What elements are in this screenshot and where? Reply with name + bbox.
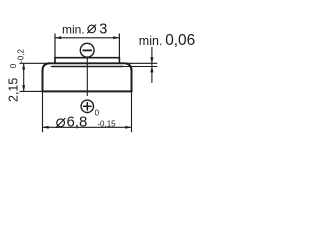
bottom dimension diameter symbol	[57, 119, 65, 127]
bottom extension line of height dimension	[20, 90, 43, 92]
bottom dimension right arrowhead	[125, 126, 131, 129]
right dimension up arrowhead	[150, 66, 153, 72]
height dimension rotated label 2,15 with tolerance 0/-0,2	[7, 48, 26, 102]
shoulder line A (top of can rim, extends both sides as extension line)	[20, 62, 158, 64]
center axis line	[86, 58, 88, 96]
plus terminal symbol circle	[81, 100, 93, 112]
minus terminal symbol circle	[80, 43, 94, 57]
svg-text:-0,15: -0,15	[97, 119, 116, 128]
top dimension line (min dia 3)	[55, 37, 119, 39]
svg-text:6,8: 6,8	[67, 113, 88, 130]
bottom dimension extension line right (can right edge extended)	[131, 91, 133, 132]
bottom dimension extension line left (can left edge extended)	[42, 91, 44, 132]
height dimension down arrowhead	[22, 85, 25, 91]
right dimension down arrowhead	[150, 57, 153, 63]
bottom dimension line dia 6,8	[43, 126, 132, 128]
svg-text:0: 0	[8, 63, 18, 68]
svg-text:0: 0	[95, 109, 100, 118]
top dimension right arrowhead	[113, 36, 119, 39]
svg-text:3: 3	[99, 21, 107, 37]
cell cap right side + extension line for min diameter 3	[118, 34, 120, 64]
top dimension left arrowhead	[55, 36, 61, 39]
right dimension vertical line	[151, 47, 153, 83]
plus terminal symbol horizontal bar	[83, 105, 92, 107]
can outline (positive case): rounded top corners, straight sides, flat bottom	[43, 63, 132, 91]
svg-text:min.: min.	[139, 34, 163, 48]
svg-text:-0,2: -0,2	[17, 48, 26, 62]
shoulder line A thick part across cell	[48, 62, 125, 64]
gasket line B thick part across cell	[52, 66, 123, 68]
height dimension line 2,15	[23, 63, 25, 91]
height dimension up arrowhead	[22, 63, 25, 69]
svg-text:2,15: 2,15	[7, 78, 21, 102]
cell cap right side thick part	[118, 57, 120, 63]
top dimension diameter symbol	[88, 25, 96, 33]
svg-text:0,06: 0,06	[165, 32, 195, 49]
cell cap top edge (negative terminal)	[55, 57, 119, 59]
gasket line B (extends right as extension line)	[51, 66, 158, 68]
cell cap left side thick part	[54, 57, 56, 63]
svg-text:min.: min.	[62, 23, 85, 37]
bottom dimension left arrowhead	[43, 126, 49, 129]
minus terminal symbol bar	[83, 49, 93, 51]
cell cap left side + extension line for min diameter 3	[54, 34, 56, 64]
plus terminal symbol vertical bar	[86, 102, 88, 111]
